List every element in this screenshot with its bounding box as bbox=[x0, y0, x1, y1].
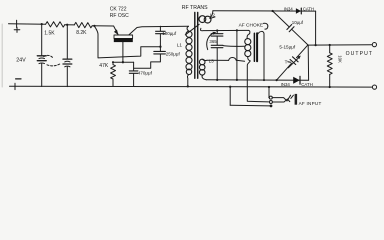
jack contact B circle bbox=[269, 101, 272, 104]
variable capacitor 365 section B bbox=[211, 45, 223, 80]
wire: variable cap tap to choke bbox=[223, 45, 245, 48]
svg-text:L3: L3 bbox=[209, 59, 215, 64]
variable capacitor 365 section A bbox=[211, 31, 223, 46]
svg-text:RF TRANS: RF TRANS bbox=[182, 5, 208, 11]
wire: rail to emitter bbox=[114, 26, 118, 34]
resistor 8.2K bbox=[74, 22, 92, 27]
node: jack ground C rail dot bbox=[268, 86, 270, 88]
node: AF line junction dots bbox=[216, 79, 278, 81]
battery B1 left cell stack bbox=[37, 24, 46, 86]
label L2 with pointer bbox=[209, 12, 216, 19]
node: base junction dots bbox=[112, 61, 124, 63]
label AF CHOKE with curl bbox=[239, 22, 268, 29]
svg-text:10μμf: 10μμf bbox=[292, 20, 304, 25]
node: jack ground A rail dot bbox=[229, 86, 231, 88]
bottom ground rail bbox=[10, 85, 373, 88]
inductor L3 winding bbox=[199, 59, 207, 80]
svg-text:OUTPUT: OUTPUT bbox=[346, 51, 374, 57]
svg-text:10K: 10K bbox=[338, 55, 343, 63]
jack sleeve bar bbox=[295, 94, 298, 105]
emitter arrowhead bbox=[114, 29, 119, 35]
svg-text:CATH: CATH bbox=[301, 82, 313, 87]
transistor Q1 CK722 bbox=[114, 35, 133, 42]
wire: base bus bbox=[113, 61, 134, 63]
wire: choke bottom to jack bbox=[247, 61, 268, 102]
svg-text:CK 722: CK 722 bbox=[110, 7, 127, 13]
wire: jack sleeve ground A bbox=[230, 87, 270, 106]
wire: tank top line bbox=[201, 28, 250, 33]
svg-text:RF OSC: RF OSC bbox=[110, 13, 129, 19]
jack contact C circle bbox=[269, 96, 272, 99]
node: 10K ground junction bbox=[329, 86, 331, 88]
resistor 47K bbox=[111, 62, 116, 86]
svg-text:100μμf: 100μμf bbox=[162, 31, 177, 36]
wire: RF top line to bridge bbox=[213, 10, 316, 12]
wire: collector lead bbox=[129, 26, 189, 35]
capacitor 250uuf bbox=[134, 51, 166, 68]
svg-text:8.2K: 8.2K bbox=[76, 30, 87, 36]
jack spring contacts bbox=[272, 95, 293, 102]
capacitor 100uuf bbox=[156, 26, 166, 51]
wire: jack ground C from rail bbox=[268, 87, 270, 98]
svg-text:250μμf: 250μμf bbox=[166, 51, 181, 56]
node: L1 ground junction bbox=[187, 85, 189, 87]
svg-text:L1: L1 bbox=[177, 42, 183, 47]
inductor AF choke winding bbox=[245, 34, 251, 61]
resistor 1.5K bbox=[46, 22, 65, 28]
svg-text:1.5K: 1.5K bbox=[44, 31, 55, 37]
svg-text:AF INPUT: AF INPUT bbox=[299, 101, 322, 106]
svg-text:IN34: IN34 bbox=[284, 6, 294, 11]
wire: AF line bbox=[206, 79, 308, 82]
scan edge shading bbox=[1, 24, 3, 87]
capacitor 10uuf on bridge diagonal bbox=[273, 11, 308, 45]
variable capacitor sweep arrow bbox=[207, 32, 216, 50]
bottom rail terminal bbox=[372, 85, 376, 89]
svg-text:T: T bbox=[285, 59, 288, 64]
node: rail junction dots bbox=[41, 23, 96, 27]
wire: bridge right drop bbox=[315, 11, 317, 45]
svg-text:365: 365 bbox=[209, 39, 217, 44]
top rail wire bbox=[9, 24, 114, 26]
transformer core bbox=[195, 13, 198, 79]
wire: L3 to choke with hop bbox=[207, 57, 245, 61]
diode D1 IN34 upper bbox=[296, 8, 301, 14]
- terminal bbox=[15, 79, 21, 90]
trimmer capacitor 5-15uuf on bridge diagonal bbox=[277, 45, 308, 80]
svg-text:47K: 47K bbox=[99, 63, 109, 69]
svg-text:24V: 24V bbox=[16, 58, 26, 64]
node: bridge top junction bbox=[271, 10, 273, 12]
svg-text:5-15μμf: 5-15μμf bbox=[279, 45, 295, 50]
battery B1 right cell stack bbox=[63, 25, 72, 87]
node: output line junctions bbox=[314, 44, 330, 46]
wire: crossing lead over core bbox=[185, 24, 199, 35]
label T with pointer bbox=[285, 59, 291, 64]
svg-text:CATH: CATH bbox=[303, 6, 314, 11]
wire: bridge right vertical bbox=[307, 45, 309, 80]
jack contact A dot bbox=[270, 105, 273, 108]
wire: tank ground drop bbox=[236, 30, 238, 80]
battery omitted-cells dashed links bbox=[44, 55, 61, 65]
wire: bias run (rail junction down and right) bbox=[94, 26, 160, 58]
wire: base lead bbox=[122, 42, 124, 62]
svg-text:AF CHOKE: AF CHOKE bbox=[239, 22, 264, 28]
node: cap tap junction bbox=[159, 46, 161, 48]
output terminal bbox=[372, 43, 376, 47]
AF choke core bbox=[254, 33, 257, 61]
+ terminal bbox=[14, 20, 20, 32]
diode D2 IN34 lower bbox=[293, 76, 300, 84]
wire: output line bbox=[308, 44, 372, 46]
inductor L2 winding bbox=[197, 11, 212, 25]
capacitor 470uuf bbox=[129, 62, 138, 86]
inductor L1 primary winding bbox=[186, 26, 192, 86]
svg-text:IN34: IN34 bbox=[281, 82, 291, 87]
node: tank line junctions bbox=[216, 29, 238, 31]
svg-text:470μμf: 470μμf bbox=[138, 70, 153, 75]
wire: choke right lead down bbox=[258, 31, 264, 79]
resistor 10K bbox=[327, 45, 332, 87]
